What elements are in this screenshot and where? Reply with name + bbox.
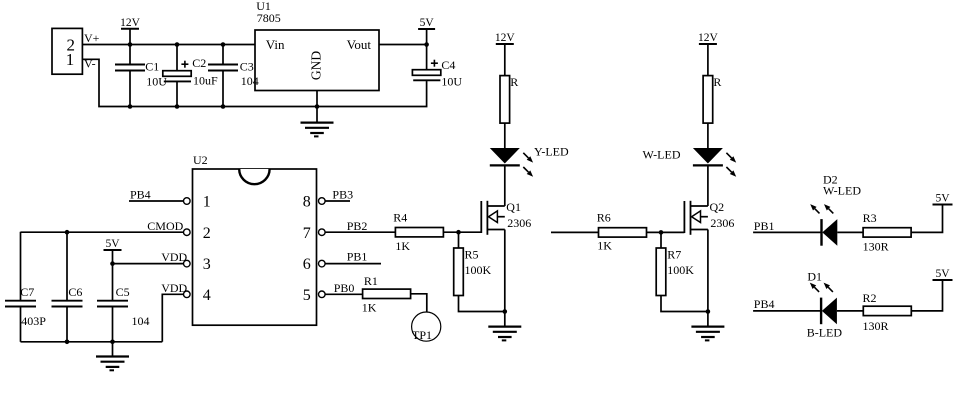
svg-text:104: 104: [132, 314, 150, 328]
svg-text:W-LED: W-LED: [643, 148, 681, 162]
svg-text:10U: 10U: [146, 75, 167, 89]
svg-text:5V: 5V: [105, 238, 120, 250]
svg-text:1: 1: [203, 194, 211, 211]
svg-text:104: 104: [241, 74, 259, 88]
svg-text:1K: 1K: [395, 239, 410, 253]
svg-text:VDD: VDD: [161, 250, 187, 264]
svg-text:4: 4: [203, 287, 211, 304]
svg-text:130R: 130R: [863, 240, 889, 254]
svg-text:R3: R3: [863, 211, 877, 225]
svg-text:R2: R2: [863, 291, 877, 305]
svg-text:R4: R4: [393, 211, 407, 225]
svg-text:1K: 1K: [597, 239, 612, 253]
svg-text:D1: D1: [807, 270, 822, 284]
svg-text:C4: C4: [441, 58, 455, 72]
svg-text:10U: 10U: [441, 75, 462, 89]
svg-text:5V: 5V: [935, 268, 950, 280]
svg-text:Vout: Vout: [347, 37, 372, 52]
svg-text:R5: R5: [465, 248, 479, 262]
svg-text:Vin: Vin: [266, 37, 285, 52]
svg-text:PB2: PB2: [347, 219, 368, 233]
svg-text:100K: 100K: [465, 263, 492, 277]
svg-text:12V: 12V: [495, 32, 516, 44]
svg-text:VDD: VDD: [161, 281, 187, 295]
svg-text:130R: 130R: [863, 319, 889, 333]
svg-text:C2: C2: [192, 56, 206, 70]
svg-text:5V: 5V: [420, 17, 435, 29]
svg-text:PB1: PB1: [347, 249, 368, 263]
svg-text:V-: V-: [84, 57, 96, 71]
svg-text:5: 5: [303, 287, 311, 304]
svg-text:12V: 12V: [698, 32, 719, 44]
svg-text:10uF: 10uF: [193, 74, 218, 88]
svg-text:6: 6: [303, 256, 311, 273]
svg-text:W-LED: W-LED: [823, 184, 861, 198]
svg-text:R: R: [510, 75, 518, 89]
svg-text:C5: C5: [116, 285, 130, 299]
svg-text:PB3: PB3: [332, 187, 353, 201]
svg-text:12V: 12V: [120, 17, 141, 29]
svg-text:8: 8: [303, 194, 311, 211]
svg-text:100K: 100K: [667, 263, 694, 277]
svg-text:TP1: TP1: [412, 328, 432, 342]
svg-text:PB1: PB1: [754, 219, 775, 233]
svg-text:2306: 2306: [507, 216, 531, 230]
svg-text:CMOD: CMOD: [147, 219, 183, 233]
svg-text:2: 2: [203, 225, 211, 242]
svg-text:R7: R7: [667, 248, 681, 262]
svg-text:7: 7: [303, 225, 311, 242]
svg-text:PB4: PB4: [754, 297, 775, 311]
svg-text:Y-LED: Y-LED: [534, 144, 569, 158]
svg-text:7805: 7805: [257, 11, 281, 25]
svg-text:C6: C6: [68, 285, 82, 299]
svg-text:3: 3: [203, 256, 211, 273]
svg-text:R: R: [713, 75, 721, 89]
svg-text:Q1: Q1: [506, 200, 521, 214]
svg-text:1: 1: [66, 50, 75, 69]
svg-text:B-LED: B-LED: [807, 326, 843, 340]
svg-text:C1: C1: [145, 60, 159, 74]
svg-text:403P: 403P: [21, 314, 46, 328]
svg-text:1K: 1K: [362, 301, 377, 315]
svg-text:C3: C3: [240, 60, 254, 74]
svg-text:5V: 5V: [935, 193, 950, 205]
svg-text:GND: GND: [309, 51, 324, 80]
svg-text:Q2: Q2: [710, 200, 725, 214]
svg-text:R1: R1: [364, 274, 378, 288]
svg-text:V+: V+: [84, 31, 100, 45]
svg-text:R6: R6: [597, 211, 611, 225]
svg-text:C7: C7: [20, 285, 34, 299]
svg-text:U2: U2: [193, 153, 208, 167]
svg-text:PB4: PB4: [130, 188, 151, 202]
svg-text:2306: 2306: [710, 216, 734, 230]
svg-text:PB0: PB0: [334, 281, 355, 295]
